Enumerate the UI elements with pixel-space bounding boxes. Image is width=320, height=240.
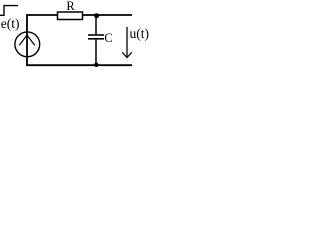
step input symbol (0, 6, 18, 16)
source arrow (19, 35, 35, 45)
u(t) arrowhead (122, 52, 132, 57)
svg-text:u(t): u(t) (130, 26, 150, 41)
u(t) arrow shaft (126, 27, 128, 57)
svg-text:C: C (104, 31, 112, 45)
resistor R1 box (58, 12, 83, 20)
source e(t) circle (15, 32, 40, 57)
node bottom junction dot (94, 63, 98, 67)
svg-text:e(t): e(t) (1, 16, 20, 31)
wire top left vertical + top horizontal (27, 15, 132, 44)
capacitor C bottom plate (88, 38, 104, 40)
wire bottom horizontal (27, 44, 132, 65)
capacitor C bottom lead (95, 40, 97, 65)
capacitor C top lead (95, 15, 97, 35)
capacitor C top plate (88, 34, 104, 36)
node top junction dot (94, 13, 99, 18)
svg-text:R: R (66, 0, 75, 13)
